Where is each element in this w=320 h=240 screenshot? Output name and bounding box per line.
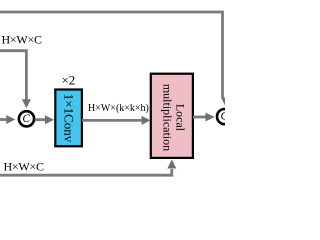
svg-text:H×W×C: H×W×C bbox=[2, 33, 43, 47]
arrowhead top bypass into node C2 bbox=[221, 98, 230, 107]
svg-text:C: C bbox=[220, 111, 225, 123]
wire input arrow from left edge into node C1 bbox=[0, 115, 15, 124]
svg-text:H×W×(k×k×h): H×W×(k×k×h) bbox=[88, 103, 149, 114]
label ×2 bbox=[61, 73, 75, 88]
wire top bypass line bbox=[0, 12, 223, 98]
block Local multiplication bbox=[151, 74, 193, 158]
arrowhead up into local multiplication box bbox=[167, 160, 176, 169]
wire local multiplication to node C2 bbox=[193, 113, 215, 122]
concat node C1 bbox=[19, 111, 34, 126]
svg-text:1×1Conv: 1×1Conv bbox=[62, 94, 77, 143]
wire conv box to local multiplication box bbox=[82, 116, 151, 125]
arrowhead down into node C1 bbox=[22, 99, 31, 108]
wire bottom input elbow up into local multiplication box bbox=[0, 169, 172, 175]
label H×W×(k×k×h) bbox=[88, 103, 149, 114]
block 1×1Conv bbox=[55, 90, 82, 147]
svg-text:×2: ×2 bbox=[61, 73, 75, 88]
svg-text:C: C bbox=[22, 113, 30, 125]
svg-text:H×W×C: H×W×C bbox=[4, 159, 45, 173]
wire node C1 to conv box bbox=[35, 115, 54, 124]
concat node C2 (clipped at right edge) bbox=[217, 109, 232, 124]
label H×W×C top-left bbox=[2, 33, 43, 47]
wire elbow from left edge down to node C1 bbox=[0, 51, 26, 100]
label H×W×C bottom bbox=[4, 159, 45, 173]
